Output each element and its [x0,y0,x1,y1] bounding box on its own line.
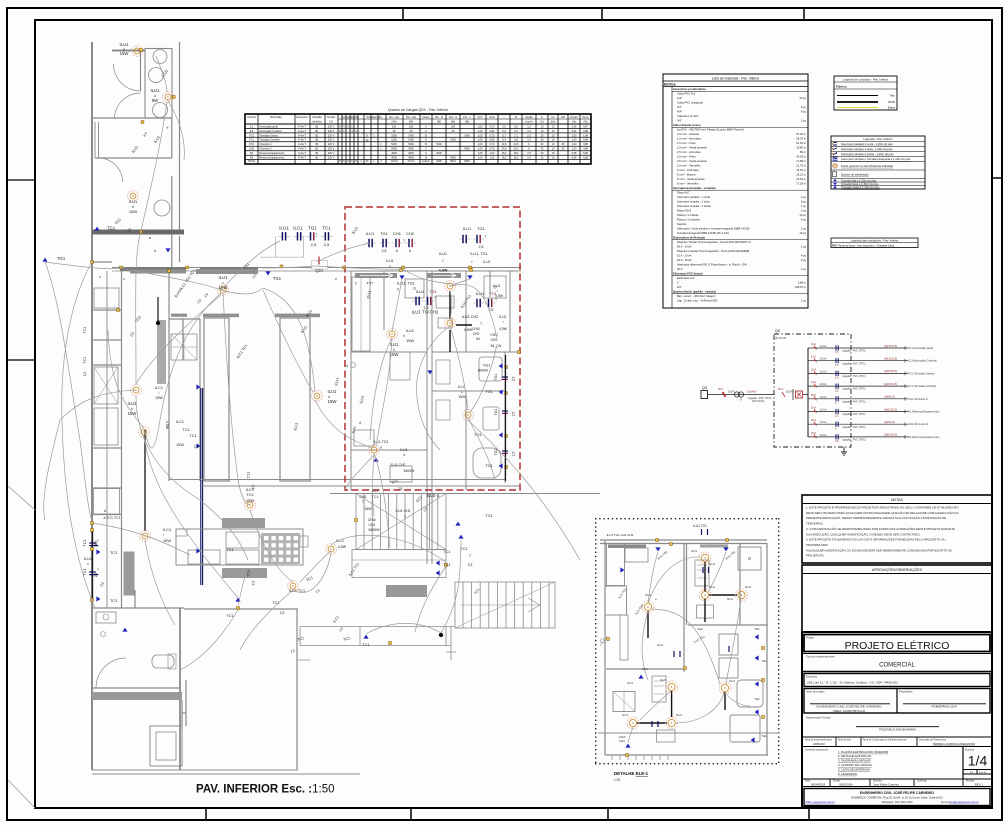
svg-text:Pot - S: Pot - S [449,115,457,119]
svg-text:Caixa PVC octogonal: Caixa PVC octogonal [677,101,703,105]
svg-text:SITE: engcarneiro.com.br: SITE: engcarneiro.com.br [805,800,835,804]
svg-text:0,70: 0,70 [490,134,495,137]
svg-text:Caixa PVC 4x2: Caixa PVC 4x2 [677,92,696,96]
svg-text:TG1: TG1 [494,374,498,381]
svg-text:Placa p/ 1 módulo: Placa p/ 1 módulo [677,213,699,217]
svg-text:2,5: 2,5 [512,452,516,457]
svg-text:ILU1: ILU1 [439,252,447,256]
svg-text:ILU1; TG1: ILU1; TG1 [397,281,415,286]
svg-text:25 A: 25 A [811,394,816,397]
svg-text:15W: 15W [364,507,372,511]
svg-text:Prancha: Prancha [965,748,975,751]
svg-text:ILU1: ILU1 [119,42,129,47]
svg-text:IL2: IL2 [250,130,254,133]
svg-text:10 kA: 10 kA [820,345,827,348]
svg-text:TC1: TC1 [83,326,87,333]
svg-text:220 V: 220 V [328,157,335,160]
svg-text:2,5 mm² - Verde-amarelo: 2,5 mm² - Verde-amarelo [677,159,707,163]
svg-text:PROPRIETÁRIO.: PROPRIETÁRIO. [806,543,829,547]
svg-text:2,5: 2,5 [251,581,255,586]
svg-text:TG1: TG1 [494,449,498,456]
svg-text:TC1: TC1 [246,493,253,497]
svg-text:128,87 m: 128,87 m [795,285,807,289]
svg-text:Disjuntor Unipolar Termomagnét: Disjuntor Unipolar Termomagnético - Norm… [677,249,749,253]
svg-text:1,00: 1,00 [478,157,483,160]
svg-text:FCT: FCT [477,115,482,119]
svg-text:QG: QG [702,386,708,390]
svg-text:(1)#2,5(1,5): (1)#2,5(1,5) [884,408,897,411]
svg-text:1,00: 1,00 [478,134,483,137]
svg-text:21,75 m: 21,75 m [796,164,806,168]
svg-text:2,5: 2,5 [527,134,531,137]
svg-text:C: C [425,148,427,151]
svg-text:15W: 15W [176,443,184,447]
svg-text:6 mm² - Vermelho: 6 mm² - Vermelho [677,182,699,186]
svg-text:1,5 mm² - Preto: 1,5 mm² - Preto [677,141,696,145]
svg-text:4x2": 4x2" [677,96,682,100]
svg-text:15W: 15W [328,399,338,404]
svg-text:2,5: 2,5 [280,611,285,615]
svg-text:Elétrica: Elétrica [836,84,847,88]
svg-text:Projeto: Projeto [806,636,815,640]
svg-text:ILU1: ILU1 [279,226,289,231]
svg-text:0,2: 0,2 [502,130,506,133]
svg-text:1,00: 1,00 [478,139,483,142]
svg-text:ILU1: ILU1 [389,342,399,347]
svg-text:50 A: 50 A [778,387,783,391]
svg-text:Reserva Equipamento: Reserva Equipamento [260,157,285,160]
svg-text:15W: 15W [120,51,130,56]
svg-text:24,5: 24,5 [514,148,519,151]
svg-text:A 4 -: A 4 - [970,771,975,774]
svg-text:d: d [346,364,348,368]
svg-text:F+N+T: F+N+T [298,148,306,151]
svg-text:ILU1: ILU1 [416,289,424,294]
svg-text:Lista de materiais - Pav. Infe: Lista de materiais - Pav. Inferior [712,76,760,80]
svg-text:15,12 m: 15,12 m [796,173,806,177]
svg-text:CH1: CH1 [642,667,648,671]
svg-text:TG1: TG1 [754,627,760,631]
svg-text:a: a [149,236,151,240]
svg-text:2,5: 2,5 [398,487,403,491]
svg-text:TG1: TG1 [494,409,498,416]
svg-text:R2 (Reserva Equipamento): R2 (Reserva Equipamento) [908,435,940,439]
svg-text:6800: 6800 [464,160,470,163]
svg-text:ILU1: ILU1 [709,585,715,589]
svg-text:1,00: 1,00 [572,148,577,151]
svg-text:Legenda de condutos - Pav. Inf: Legenda de condutos - Pav. Inferior [843,78,889,82]
svg-text:42,25 m: 42,25 m [796,155,806,159]
svg-text:CHU/: CHU/ [368,518,377,522]
svg-text:ILU1: ILU1 [400,448,407,452]
svg-text:(%): (%) [572,120,576,124]
svg-text:5400: 5400 [391,143,397,146]
svg-text:ILU1: ILU1 [676,713,682,717]
svg-text:ILU1: ILU1 [493,284,500,288]
svg-text:1,88: 1,88 [583,134,588,137]
svg-text:PVC Ponto de força - Uso espec: PVC Ponto de força - Uso específico - Ch… [832,244,895,248]
svg-text:(%): (%) [583,120,587,124]
svg-text:f: f [472,260,473,264]
svg-text:40 A: 40 A [677,267,683,271]
svg-text:18,2: 18,2 [502,157,507,160]
svg-text:TG1: TG1 [485,389,493,394]
svg-text:6 mm² - Branco: 6 mm² - Branco [677,173,696,177]
svg-text:Reserva Equipamento: Reserva Equipamento [260,152,285,155]
svg-text:(V): (V) [329,120,333,124]
svg-text:Interruptor 1 tecla simples e: Interruptor 1 tecla simples e tomada hex… [677,227,750,231]
svg-text:89 m: 89 m [800,150,807,154]
svg-text:1": 1" [677,281,679,285]
svg-text:IL2 (Iluminação Cozinha): IL2 (Iluminação Cozinha) [908,359,937,363]
svg-text:CH1: CH1 [249,143,255,146]
svg-text:Baixa: Baixa [888,106,895,110]
svg-text:DEVE SER UTILIZADO PARA QUALQU: DEVE SER UTILIZADO PARA QUALQUER OUTRA F… [806,510,959,515]
svg-text:CH2: CH2 [473,332,480,336]
svg-text:Área do lote: Área do lote [838,738,852,741]
svg-text:ILU1 TG¹CH2: ILU1 TG¹CH2 [412,310,439,315]
svg-text:ILU1: ILU1 [366,231,375,236]
svg-text:10 A: 10 A [811,368,816,371]
svg-text:4,9W: 4,9W [439,269,448,273]
svg-text:(1)#2,5(1,5): (1)#2,5(1,5) [884,370,897,373]
svg-text:Ligação - PVC (TPC): Ligação - PVC (TPC) [842,362,866,365]
svg-text:7,1: 7,1 [514,134,518,137]
svg-text:100 A: 100 A [728,390,735,394]
svg-text:TC1: TC1 [460,547,467,551]
svg-text:(1)#1,5(1,5): (1)#1,5(1,5) [884,345,897,348]
svg-text:15W: 15W [406,339,414,343]
svg-text:Tomadas Gerais: Tomadas Gerais [260,134,279,137]
svg-text:ILU1 CH2: ILU1 CH2 [396,509,411,513]
svg-text:Ligação - PVC (TPC): Ligação - PVC (TPC) [842,350,866,353]
svg-text:1,00: 1,00 [478,125,483,128]
svg-text:TG1: TG1 [429,289,437,294]
svg-text:4. QUADRO DE CARGAS: 4. QUADRO DE CARGAS [838,763,872,767]
svg-text:TG1: TG1 [308,226,317,231]
svg-text:Iluminação (W): Iluminação (W) [341,115,359,119]
svg-text:TC1: TC1 [110,598,117,603]
svg-text:ILU1: ILU1 [129,199,138,204]
svg-text:800W: 800W [478,367,488,372]
svg-text:Chuveiro 1: Chuveiro 1 [260,143,273,146]
svg-text:Interruptor paralelo 1 tecla -: Interruptor paralelo 1 tecla - 1,20m do … [841,142,893,146]
svg-text:Legenda - Pav. Inferior: Legenda - Pav. Inferior [863,137,892,141]
svg-text:b: b [154,249,156,253]
svg-text:ILU1; TG1: ILU1; TG1 [470,252,487,256]
svg-text:T: T [495,298,497,302]
svg-text:10 kA: 10 kA [820,434,827,437]
svg-text:10 kA: 10 kA [820,421,827,424]
svg-text:2,5: 2,5 [527,157,531,160]
svg-text:TC1: TC1 [182,428,189,432]
svg-text:15W: 15W [246,499,254,503]
svg-text:Interruptor simples 1 tecla -: Interruptor simples 1 tecla - 1,20m do p… [841,147,893,151]
svg-text:TC1: TC1 [83,356,87,363]
svg-text:2,5 mm² - Azul-claro: 2,5 mm² - Azul-claro [677,150,702,154]
svg-text:2 pç: 2 pç [801,195,807,199]
svg-text:Descrição: Descrição [270,115,282,119]
svg-text:ILU1: ILU1 [463,226,472,231]
svg-text:José Felipe Carneiro: José Felipe Carneiro [873,782,899,786]
svg-text:TC1: TC1 [246,471,250,478]
svg-text:TC1: TC1 [226,548,233,552]
svg-text:(1)#2,5(1,5): (1)#2,5(1,5) [884,383,897,386]
svg-text:220 V: 220 V [328,152,335,155]
svg-text:15W: 15W [129,209,137,214]
svg-text:2. O PROJETISTA NÃO SE RESPONS: 2. O PROJETISTA NÃO SE RESPONSABILIZARÁ … [806,526,955,531]
svg-text:10 A: 10 A [811,381,816,384]
svg-text:0,36: 0,36 [572,125,577,128]
svg-text:18,2: 18,2 [514,157,519,160]
svg-text:Responsável Técnico: Responsável Técnico [806,716,831,720]
svg-text:5. LISTA DE MATERIAIS: 5. LISTA DE MATERIAIS [838,767,870,771]
svg-text:2,5 mm² - Vermelho: 2,5 mm² - Vermelho [677,164,701,168]
svg-text:(W): (W) [437,120,441,124]
svg-text:URBANO: URBANO [813,742,826,746]
svg-text:Ponto genérico no teto (Potênc: Ponto genérico no teto (Potência indicad… [841,164,893,168]
svg-text:TC1: TC1 [322,226,331,231]
svg-text:g: g [380,445,382,449]
svg-text:Whatsapp: (62) 9404-4393: Whatsapp: (62) 9404-4393 [882,800,913,804]
svg-text:F+N+T: F+N+T [298,130,306,133]
svg-text:ILU1: ILU1 [727,597,733,601]
svg-text:ILC1: ILC1 [176,420,184,424]
svg-text:1,5: 1,5 [527,125,531,128]
svg-text:ILU1: ILU1 [745,585,751,589]
svg-text:2,5: 2,5 [94,541,98,546]
svg-text:Seção: Seção [525,115,533,119]
svg-text:3/4": 3/4" [677,285,682,289]
svg-text:0,6: 0,6 [514,125,518,128]
svg-text:ILU1: ILU1 [84,557,92,561]
svg-text:F+N+T: F+N+T [298,152,306,155]
svg-text:TERCEIROS.: TERCEIROS. [806,522,824,526]
svg-text:10 kA: 10 kA [820,370,827,373]
svg-text:Conteúdo da prancha: Conteúdo da prancha [805,748,829,751]
svg-text:1,5 mm² - Amarelo: 1,5 mm² - Amarelo [677,132,700,136]
svg-text:TG1: TG1 [57,256,66,261]
svg-text:CH1: CH1 [359,495,366,499]
svg-text:F+N+T: F+N+T [298,139,306,142]
svg-text:Interruptor simples - 1 tecla: Interruptor simples - 1 tecla [677,200,710,204]
svg-text:COMERCIAL: COMERCIAL [879,663,915,669]
svg-text:g: g [404,514,406,518]
svg-text:4000: 4000 [391,152,397,155]
svg-text:6: 6 [396,249,398,253]
svg-text:Interruptor simples e Tomada h: Interruptor simples e Tomada hexagonal a… [841,157,911,161]
svg-text:CH1: CH1 [393,231,402,236]
svg-text:c: c [123,277,125,281]
svg-text:c: c [99,275,101,279]
svg-text:Ligação - PVC (TPC): Ligação - PVC (TPC) [842,375,866,378]
svg-text:POZZUELO ENGENHARIA: POZZUELO ENGENHARIA [879,728,916,732]
svg-text:CHU/: CHU/ [472,327,480,331]
svg-text:(1)#6(1,5): (1)#6(1,5) [884,421,895,424]
svg-text:1,5: 1,5 [527,130,531,133]
svg-text:50 A: 50 A [718,387,723,391]
svg-text:0,70: 0,70 [490,143,495,146]
svg-text:Elétrica: Elétrica [664,82,676,86]
svg-text:R1 (Reserva Equipamento): R1 (Reserva Equipamento) [908,410,940,414]
svg-text:15W: 15W [458,395,466,399]
svg-text:6,4: 6,4 [502,139,506,142]
svg-text:Tomada hexagonal (NBR 14136) 2: Tomada hexagonal (NBR 14136) 2P+T 10A [677,231,729,235]
svg-text:ILU1: ILU1 [709,562,715,566]
svg-text:CH2: CH2 [406,231,415,236]
svg-text:6 mm² - Verde-amarelo: 6 mm² - Verde-amarelo [677,177,705,181]
svg-text:3. DIAGRAMA UNIFILAR: 3. DIAGRAMA UNIFILAR [838,759,870,763]
svg-text:ENDEREÇO COMERCIAL: Rua 25, Qd: ENDEREÇO COMERCIAL: Rua 25, Qd.04, Lt.19… [851,795,943,799]
svg-text:Tomada alta a 2,20m do piso: Tomada alta a 2,20m do piso [841,178,877,182]
svg-text:0,80: 0,80 [490,130,495,133]
svg-text:Pot. máx: Pot. máx [406,115,417,119]
svg-text:CH2: CH2 [491,338,498,342]
svg-text:4000: 4000 [408,157,414,160]
svg-text:220 V: 220 V [328,148,335,151]
svg-text:4x6² (PVC): 4x6² (PVC) [752,400,765,403]
svg-text:Circuito: Circuito [247,115,256,119]
svg-text:136: 136 [409,125,414,128]
svg-text:5400W: 5400W [368,528,380,532]
svg-text:e: e [335,277,337,281]
svg-text:4000: 4000 [391,157,397,160]
svg-text:F+N+T: F+N+T [298,143,306,146]
svg-text:Caixa de Luz 4x2": Caixa de Luz 4x2" [677,114,699,118]
svg-text:TG1: TG1 [273,276,282,281]
svg-text:SUA EXECUÇÃO. QUALQUER MODIFIC: SUA EXECUÇÃO. QUALQUER MODIFICAÇÃO, O ME… [806,531,920,536]
svg-text:(1)#6(1,5): (1)#6(1,5) [884,396,895,399]
svg-text:6 mm² - Azul-claro: 6 mm² - Azul-claro [677,168,699,172]
svg-text:Quadro distrib. (padrão - embu: Quadro distrib. (padrão - embutir) [673,290,716,294]
svg-text:6: 6 [409,249,411,253]
svg-text:2 pç: 2 pç [801,119,807,123]
svg-text:CH1: CH1 [368,523,375,527]
svg-text:CH1 (Chuveiro 1): CH1 (Chuveiro 1) [908,397,928,401]
svg-text:2,5: 2,5 [479,245,484,249]
svg-text:DETALHE ELE-1: DETALHE ELE-1 [614,771,649,776]
svg-text:h: h [403,334,405,338]
svg-text:4000: 4000 [408,152,414,155]
svg-text:F+N+T: F+N+T [298,134,306,137]
svg-text:9W: 9W [152,98,159,103]
svg-text:TC1: TC1 [189,434,196,438]
svg-text:(VA): (VA) [392,120,397,124]
svg-text:15W: 15W [163,538,171,543]
svg-text:ELE-1: ELE-1 [427,493,440,498]
svg-text:TG1: TG1 [474,432,482,437]
svg-text:ILU1 CH2: ILU1 CH2 [391,463,406,467]
svg-text:2. DETALHE ELÉTRICAS: 2. DETALHE ELÉTRICAS [838,753,871,758]
svg-text:1,00: 1,00 [478,130,483,133]
svg-text:CH2: CH2 [697,627,703,631]
svg-text:4x4": 4x4" [677,110,682,114]
svg-text:QD: QD [775,329,781,333]
svg-text:TC1: TC1 [82,539,87,546]
svg-text:Fases: Fases [422,115,430,119]
svg-text:ILU1: ILU1 [622,713,628,717]
svg-text:3/4": 3/4" [677,105,682,109]
svg-text:2,5: 2,5 [382,249,387,253]
svg-text:25 A: 25 A [811,419,816,422]
svg-text:2 pç: 2 pç [801,209,807,213]
svg-text:1. ESTE PROJETO É PROPRIEDADE: 1. ESTE PROJETO É PROPRIEDADE DO PROJETI… [806,505,959,510]
svg-text:5514: 5514 [450,160,456,163]
svg-text:6,7: 6,7 [502,134,506,137]
svg-text:f: f [443,259,444,263]
svg-text:T: T [480,322,482,326]
svg-text:2 pç: 2 pç [801,258,807,262]
svg-text:1400: 1400 [464,134,470,137]
svg-text:0,6: 0,6 [502,125,506,128]
svg-text:ILU1: ILU1 [406,329,414,333]
svg-text:ILC1: ILC1 [155,386,163,390]
svg-text:Interruptor diferencial DR (2: Interruptor diferencial DR (2 Polos/Neut… [677,263,747,267]
svg-text:(mm²): (mm²) [526,120,533,124]
svg-text:Revisão: Revisão [966,780,975,783]
svg-text:10 kA: 10 kA [820,409,827,412]
svg-text:16 pç: 16 pç [799,231,806,235]
svg-text:Proprietário: Proprietário [899,690,913,694]
svg-text:220 V: 220 V [328,143,335,146]
svg-text:PRESENTE EDIFICAÇÃO, SENDO TER: PRESENTE EDIFICAÇÃO, SENDO TERMINANTEMEN… [806,515,946,520]
svg-text:Pot. máx: Pot. máx [389,115,400,119]
svg-text:TG1: TG1 [485,514,492,518]
svg-text:ILC1: ILC1 [293,226,303,231]
svg-text:ILU1: ILU1 [386,259,393,263]
svg-text:4,5W: 4,5W [165,421,169,430]
svg-text:Disjuntor Tripolar Termomagnét: Disjuntor Tripolar Termomagnético - Norm… [677,240,751,244]
svg-text:1,5 mm² - Verde-amarelo: 1,5 mm² - Verde-amarelo [677,146,707,150]
svg-text:26,51 m: 26,51 m [796,168,806,172]
svg-text:INDICADA: INDICADA [839,782,852,786]
svg-text:24,5: 24,5 [502,143,507,146]
svg-text:PROJETO ELÉTRICO: PROJETO ELÉTRICO [845,639,950,652]
svg-text:Placa 4x2": Placa 4x2" [677,191,690,195]
svg-text:Ligação - PVC (TPC): Ligação - PVC (TPC) [842,413,866,416]
svg-text:6 pç: 6 pç [801,105,807,109]
svg-text:ILC1: ILC1 [246,488,254,492]
svg-text:1,00: 1,00 [478,152,483,155]
svg-text:09/04/2024: 09/04/2024 [811,782,825,786]
svg-text:1,5 mm² - Azul-claro: 1,5 mm² - Azul-claro [677,137,702,141]
svg-text:NOTAS: NOTAS [891,498,904,502]
svg-text:(A): (A) [540,120,544,124]
svg-text:57,35 m: 57,35 m [796,132,806,136]
svg-text:Interruptor paralelo - 1 tecla: Interruptor paralelo - 1 tecla [677,195,711,199]
svg-text:TC1 (Tomadas Cozinha): TC1 (Tomadas Cozinha) [908,384,936,388]
svg-text:ILU1: ILU1 [327,389,337,394]
svg-text:Interruptores/tomadas - comple: Interruptores/tomadas - completo [673,186,716,190]
svg-text:5400: 5400 [391,148,397,151]
svg-text:Conferido: Conferido [917,780,928,783]
svg-text:TC1: TC1 [249,139,254,142]
svg-text:5400W: 5400W [404,469,416,473]
svg-text:21714: 21714 [408,160,416,163]
svg-text:4.QUALQUER MODIFICAÇÃO OU DÚVI: 4.QUALQUER MODIFICAÇÃO OU DÚVIDA DEVERÁ … [806,547,953,552]
svg-text:1,00: 1,00 [478,148,483,151]
svg-text:9400: 9400 [436,160,442,163]
svg-text:136: 136 [392,125,397,128]
svg-text:58,78 m: 58,78 m [796,137,806,141]
svg-text:4 pç: 4 pç [801,254,807,258]
svg-text:30 pç: 30 pç [799,96,806,100]
svg-text:Eletroduto corr.: Eletroduto corr. [677,276,695,280]
svg-text:h: h [397,288,399,292]
svg-text:1,00: 1,00 [572,134,577,137]
svg-text:0,70: 0,70 [490,125,495,128]
svg-text:Tomadas Cozinha: Tomadas Cozinha [260,139,281,142]
